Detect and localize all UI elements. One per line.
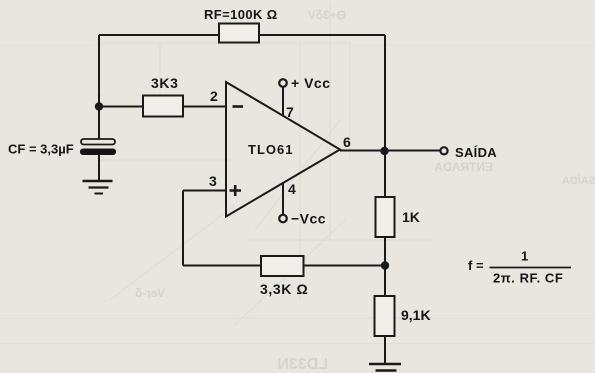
- wire: right vertical middle: [384, 237, 386, 296]
- wire: to resistor 3K3: [99, 106, 143, 108]
- svg-text:4: 4: [288, 181, 296, 197]
- svg-text:SAÍDA: SAÍDA: [455, 145, 497, 160]
- node: junction lower right: [381, 261, 389, 269]
- capacitor CF bottom plate: [80, 149, 116, 156]
- svg-text:3K3: 3K3: [151, 75, 178, 91]
- ground left: [83, 181, 113, 194]
- svg-text:LD33N: LD33N: [277, 356, 328, 373]
- svg-text:9,1K: 9,1K: [401, 307, 431, 323]
- wire: pin 7 stub: [282, 87, 284, 116]
- resistor R 1K: [376, 197, 395, 237]
- resistor RF: [219, 24, 259, 43]
- svg-text:7: 7: [286, 104, 294, 120]
- formula f = 1/(2π.RF.CF): [468, 249, 571, 286]
- svg-text:3,3K Ω: 3,3K Ω: [260, 281, 308, 297]
- resistor 3,3KΩ: [261, 256, 304, 276]
- op-amp plus input mark: [230, 185, 242, 196]
- svg-text:ENTRADA: ENTRADA: [434, 160, 493, 174]
- wire: output pin 6: [340, 150, 441, 152]
- svg-text:RF=100K Ω: RF=100K Ω: [204, 7, 278, 22]
- wire: feedback bottom right: [304, 265, 386, 267]
- capacitor CF top plate: [81, 139, 115, 145]
- svg-text:f =: f =: [468, 258, 484, 273]
- wire: feedback left vertical: [182, 191, 184, 266]
- wire: left vertical: [98, 35, 100, 139]
- wire: 3K3 to pin 2: [183, 106, 226, 108]
- terminal +Vcc: [279, 79, 287, 87]
- wire: right vertical bottom: [384, 336, 386, 363]
- svg-text:+ Vcc: + Vcc: [291, 75, 330, 91]
- svg-text:CF = 3,3µF: CF = 3,3µF: [8, 142, 74, 157]
- svg-text:3: 3: [209, 173, 217, 189]
- svg-text:1K: 1K: [402, 209, 420, 225]
- node: junction left: [95, 102, 103, 110]
- ground right: [369, 364, 401, 371]
- wire: pin 4 stub: [282, 183, 284, 215]
- resistor 3K3: [143, 96, 183, 117]
- terminal SAIDA: [440, 147, 447, 154]
- op-amp minus input mark: [233, 105, 244, 108]
- terminal -Vcc: [279, 215, 287, 223]
- svg-text:SAÍDA: SAÍDA: [562, 174, 595, 187]
- svg-text:TLO61: TLO61: [248, 142, 293, 157]
- svg-text:1: 1: [521, 249, 528, 264]
- wire: top feedback left segment: [99, 34, 219, 36]
- svg-text:−Vcc: −Vcc: [291, 211, 326, 227]
- op-amp U1 TL061: [226, 82, 340, 217]
- svg-text:2π. RF. CF: 2π. RF. CF: [493, 271, 563, 286]
- wire: feedback bottom left: [183, 265, 261, 267]
- svg-text:6: 6: [343, 134, 351, 150]
- svg-text:2: 2: [210, 88, 218, 104]
- svg-text:Ver-δ: Ver-δ: [135, 286, 165, 300]
- wire: right vertical upper: [384, 35, 386, 197]
- wire: pin 3 stub: [183, 190, 226, 192]
- svg-text:Θ+3δV: Θ+3δV: [308, 8, 346, 22]
- wire: top feedback right segment: [259, 34, 385, 36]
- node: output junction: [380, 147, 388, 155]
- resistor R 9,1K: [375, 296, 395, 336]
- wire: capacitor to ground: [98, 155, 100, 181]
